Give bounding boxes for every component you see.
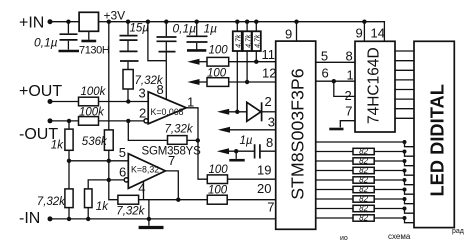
- svg-text:82: 82: [359, 176, 368, 185]
- wire arrow row pin 8: [217, 148, 254, 159]
- svg-text:7,32k: 7,32k: [116, 206, 145, 218]
- svg-text:9: 9: [285, 27, 292, 42]
- capacitor C1 0,1u: [34, 22, 78, 50]
- svg-text:K=8,32: K=8,32: [131, 164, 159, 174]
- resistor R6 100 (row pin 12): [187, 68, 275, 87]
- svg-text:82: 82: [359, 204, 368, 213]
- node -OUT: [19, 118, 58, 143]
- svg-text:1k: 1k: [51, 140, 64, 152]
- svg-text:1k: 1k: [96, 201, 109, 213]
- svg-text:4,7k: 4,7k: [255, 34, 262, 48]
- wire op-amp B pin 5 row: [67, 159, 129, 163]
- resistor R12 100 (row pin 19): [207, 164, 275, 183]
- wire 74HC pin 9: [356, 22, 365, 42]
- capacitor C3 0,1u: [157, 22, 197, 61]
- resistor RN3 4,7k pull-up: [252, 22, 262, 62]
- node -IN: [19, 210, 53, 227]
- resistor R5 100 (row pin 11): [187, 44, 275, 66]
- svg-text:100: 100: [209, 44, 229, 56]
- capacitor C2 15u: [120, 22, 150, 51]
- svg-text:100k: 100k: [81, 86, 107, 98]
- svg-text:-IN: -IN: [19, 210, 40, 227]
- svg-text:536k: 536k: [82, 136, 108, 148]
- pin labels STM8 left: [257, 47, 276, 214]
- resistor R21 82: [316, 147, 414, 156]
- svg-text:2: 2: [345, 88, 352, 103]
- wire +IN to regulator: [50, 20, 79, 24]
- svg-text:11: 11: [262, 47, 276, 62]
- svg-text:1µ: 1µ: [240, 135, 253, 147]
- wire op-amp B pin 6 row: [107, 161, 125, 182]
- wire op-amp A output: [186, 108, 207, 179]
- svg-text:8: 8: [346, 48, 353, 63]
- capacitor C4 1u: [187, 22, 218, 50]
- svg-text:8: 8: [157, 82, 164, 97]
- wire +3V drop to 536k column: [108, 22, 110, 130]
- svg-text:20: 20: [257, 181, 271, 196]
- resistor R3 100k: [79, 107, 106, 126]
- svg-text:STM8S003F3P6: STM8S003F3P6: [287, 68, 307, 200]
- resistor R13 100 (row pin 20): [207, 185, 275, 205]
- svg-text:82: 82: [359, 185, 368, 194]
- svg-text:7130H: 7130H: [79, 45, 110, 57]
- svg-text:100k: 100k: [79, 107, 105, 119]
- wire 74HC pin 7 to ground: [340, 104, 355, 128]
- wire STM8 pin 9: [285, 22, 297, 42]
- ground bar under C1: [59, 50, 80, 53]
- svg-text:74HC164D: 74HC164D: [366, 47, 383, 124]
- svg-text:1: 1: [347, 67, 354, 82]
- op-amp U2B: [119, 145, 201, 196]
- ground bar under C4: [187, 49, 206, 52]
- svg-text:6: 6: [119, 165, 126, 180]
- node +OUT: [19, 83, 62, 104]
- svg-text:схема: схема: [388, 232, 411, 241]
- resistor RN2 4,7k pull-up: [243, 22, 253, 82]
- resistor R1 7,32k: [123, 70, 164, 102]
- op-amp U2A: [139, 82, 195, 124]
- svg-text:5: 5: [119, 145, 126, 160]
- ground main: [139, 219, 164, 228]
- wire op-amp A V+ pin 8: [148, 22, 166, 100]
- wire STM8 pin5 to 74HC pin8: [316, 48, 355, 63]
- wire STM8 pin6 to 74HC pins 1,2: [316, 65, 355, 103]
- svg-text:ио: ио: [340, 235, 348, 241]
- wire arrow row pin 2: [217, 109, 247, 115]
- svg-text:12: 12: [262, 66, 276, 81]
- svg-text:LED DIDITAL: LED DIDITAL: [427, 84, 448, 196]
- svg-text:3: 3: [139, 85, 146, 100]
- MCU U3 STM8S003F3P6: [276, 41, 316, 229]
- svg-text:+IN: +IN: [19, 15, 44, 32]
- svg-text:K=0,068: K=0,068: [151, 107, 184, 117]
- svg-text:1µ: 1µ: [204, 22, 218, 36]
- svg-text:14: 14: [371, 26, 385, 41]
- wire -IN row: [50, 217, 276, 221]
- wires 74HC outputs to LED: [395, 51, 414, 118]
- resistor R4 7,32k feedback A: [128, 121, 200, 144]
- resistor R22 82: [316, 157, 414, 166]
- node +IN: [19, 15, 53, 32]
- svg-text:82: 82: [359, 157, 368, 166]
- wire +OUT row to op-amp pin 3: [50, 99, 148, 103]
- resistor R10 1k: [85, 180, 110, 219]
- wire op-amp B pin 4: [144, 181, 149, 219]
- wire arrow row pin 3: [218, 127, 276, 133]
- ground bar under 7130H: [81, 40, 96, 43]
- svg-text:4,7k: 4,7k: [236, 34, 243, 48]
- svg-text:7: 7: [345, 104, 352, 119]
- resistor R27 82: [316, 204, 414, 213]
- ground bar row pin 8: [229, 159, 244, 162]
- svg-text:7: 7: [267, 199, 274, 214]
- wire -OUT row to op-amp pin 2: [50, 119, 144, 123]
- svg-text:82: 82: [359, 214, 368, 223]
- resistor R7 1k: [51, 121, 73, 161]
- svg-text:0,1µ: 0,1µ: [173, 22, 197, 36]
- svg-text:1: 1: [187, 94, 194, 109]
- resistor R28 82: [316, 214, 414, 223]
- resistor R11 7,32k feedback B: [109, 180, 208, 218]
- svg-text:5: 5: [321, 48, 328, 63]
- svg-text:82: 82: [359, 147, 368, 156]
- svg-text:15µ: 15µ: [130, 23, 150, 35]
- wire op-amp B output: [165, 171, 180, 202]
- resistor R8 536k: [82, 130, 113, 161]
- resistor R2 100k: [79, 86, 107, 106]
- resistor R9 7,32k: [37, 161, 73, 219]
- svg-text:3: 3: [268, 114, 275, 129]
- svg-text:9: 9: [356, 26, 363, 41]
- wire +3V rail: [109, 20, 367, 24]
- display U5 LED DIDITAL: [414, 41, 454, 227]
- resistor R26 82: [316, 195, 414, 204]
- svg-text:+OUT: +OUT: [19, 83, 62, 100]
- svg-text:82: 82: [359, 195, 368, 204]
- svg-text:0,1µ: 0,1µ: [34, 36, 58, 50]
- diode VD1: [247, 102, 276, 121]
- svg-text:2: 2: [139, 105, 146, 120]
- svg-text:19: 19: [257, 163, 271, 178]
- svg-text:рад: рад: [452, 228, 464, 235]
- watermark: [340, 228, 464, 241]
- resistor R25 82: [316, 185, 414, 194]
- svg-text:6: 6: [322, 65, 329, 80]
- svg-text:8: 8: [266, 135, 273, 150]
- wire STM8 segment row 0: [316, 140, 414, 147]
- svg-text:7,32k: 7,32k: [165, 123, 194, 135]
- capacitor C2b lower plates: [120, 51, 139, 69]
- svg-text:+3V: +3V: [104, 9, 126, 23]
- capacitor C5 1u: [240, 135, 276, 159]
- wire 74HC pin 14: [364, 22, 385, 42]
- svg-text:7,32k: 7,32k: [37, 196, 66, 208]
- svg-text:82: 82: [359, 166, 368, 175]
- svg-text:7: 7: [168, 153, 175, 168]
- node +3V: [99, 9, 126, 24]
- resistor RN1 4,7k pull-up: [233, 22, 243, 112]
- svg-text:4: 4: [138, 180, 145, 195]
- resistor R23 82: [316, 166, 414, 175]
- ground bar 74HC pin 7: [329, 128, 343, 131]
- resistor R24 82: [316, 176, 414, 185]
- shift register U4 74HC164D: [355, 41, 395, 132]
- regulator U1 7130H: [79, 12, 110, 56]
- svg-text:2: 2: [265, 94, 272, 109]
